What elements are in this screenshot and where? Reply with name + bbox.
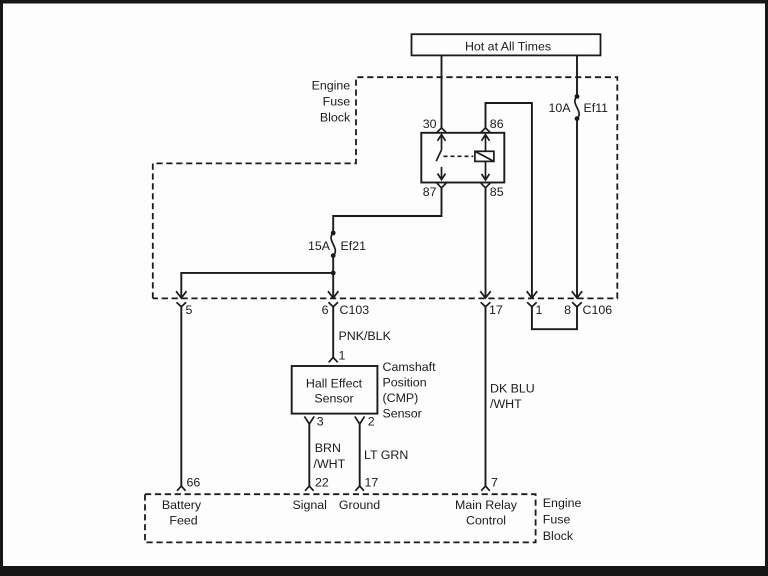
wire: row pin 17 to main relay control pin 7 (DK BLU/WHT) xyxy=(485,307,487,486)
svg-text:Sensor: Sensor xyxy=(383,407,422,421)
wire color label DK BLU/WHT xyxy=(490,382,535,412)
label: Engine Fuse Block (bottom) xyxy=(543,496,582,543)
svg-text:1: 1 xyxy=(339,349,346,363)
wire: fuse Ef21 down to row pin 6 xyxy=(328,256,338,298)
label: Camshaft Position (CMP) Sensor xyxy=(383,360,437,421)
engine fuse block boundary (dashed) xyxy=(153,77,618,298)
relay pin 30 connector caret xyxy=(437,128,446,132)
power source label: Hot at All Times xyxy=(412,34,601,55)
svg-text:Camshaft: Camshaft xyxy=(383,360,437,374)
wire: CMP pin 2 to ground pin 17 (LT GRN) xyxy=(359,424,361,486)
wire: row pin 6 to CMP pin 1 (PNK/BLK) xyxy=(332,307,334,358)
svg-text:66: 66 xyxy=(187,476,201,490)
wire: Hot at All Times to fuse Ef11 xyxy=(576,55,578,96)
svg-text:Block: Block xyxy=(543,529,574,543)
svg-text:Ef11: Ef11 xyxy=(584,101,609,115)
svg-text:Battery: Battery xyxy=(162,498,202,512)
connector pin 17 caret xyxy=(481,302,503,317)
svg-text:Ef21: Ef21 xyxy=(341,239,367,253)
svg-text:Sensor: Sensor xyxy=(314,391,353,405)
relay coil (pins 86-85) xyxy=(475,135,494,180)
engine fuse block (bottom) boundary dashed box xyxy=(145,494,536,542)
wire: fuse Ef11 to C106 pin 8 xyxy=(572,119,582,298)
wire: relay pin 86 to C106 pin 1 xyxy=(486,103,538,298)
svg-text:Position: Position xyxy=(383,376,427,390)
svg-text:Fuse: Fuse xyxy=(543,513,571,527)
svg-text:87: 87 xyxy=(423,185,437,199)
svg-text:Engine: Engine xyxy=(312,79,351,93)
wire: relay pin 85 down to fuse block row pin 17 xyxy=(480,188,490,298)
label: Battery Feed xyxy=(162,498,202,528)
relay mechanical linkage (dashed) xyxy=(444,155,474,157)
svg-text:Ground: Ground xyxy=(339,498,380,512)
svg-text:Fuse: Fuse xyxy=(323,95,351,109)
wire: C106 pins 1 and 8 jumper xyxy=(532,307,577,329)
CMP pin 3 caret xyxy=(304,414,323,428)
connector pin 8 caret (C106) xyxy=(564,302,612,317)
svg-text:C103: C103 xyxy=(340,303,370,317)
svg-text:15A: 15A xyxy=(308,239,331,253)
svg-text:8: 8 xyxy=(564,303,571,317)
CMP pin 2 caret xyxy=(355,414,375,428)
relay pin 85 connector caret xyxy=(481,183,490,188)
svg-text:Feed: Feed xyxy=(169,514,197,528)
svg-text:C106: C106 xyxy=(583,303,613,317)
svg-text:7: 7 xyxy=(491,476,498,490)
svg-text:2: 2 xyxy=(368,414,375,428)
wire: relay pin 87 to fuse Ef21 xyxy=(333,188,441,233)
connector pin 7 caret xyxy=(481,476,498,491)
svg-text:DK BLU: DK BLU xyxy=(490,382,535,396)
fuse Ef21 xyxy=(331,231,336,258)
svg-text:Hall Effect: Hall Effect xyxy=(306,376,363,390)
connector pin 6 caret xyxy=(322,302,370,317)
svg-text:30: 30 xyxy=(423,117,437,131)
connector pin 1 caret (C106) xyxy=(527,302,542,317)
svg-text:86: 86 xyxy=(490,117,504,131)
svg-text:/WHT: /WHT xyxy=(314,457,346,471)
svg-text:22: 22 xyxy=(315,476,329,490)
junction dot xyxy=(331,271,336,276)
svg-text:85: 85 xyxy=(490,185,504,199)
connector pin 17 caret (ground) xyxy=(355,476,378,491)
svg-text:1: 1 xyxy=(536,303,543,317)
label: Main Relay Control xyxy=(455,498,518,528)
CMP pin 1 caret xyxy=(329,349,346,363)
connector pin 5 caret xyxy=(177,302,193,317)
svg-text:(CMP): (CMP) xyxy=(383,391,419,405)
svg-text:17: 17 xyxy=(489,303,503,317)
svg-text:LT GRN: LT GRN xyxy=(364,448,408,462)
relay box xyxy=(421,133,504,183)
wire: branch to row pin 5 xyxy=(176,273,333,298)
svg-text:Engine: Engine xyxy=(543,496,582,510)
label: Engine Fuse Block (top) xyxy=(312,79,351,125)
wire color label BRN/WHT xyxy=(314,441,346,471)
relay pin 86 connector caret xyxy=(481,128,490,132)
svg-text:/WHT: /WHT xyxy=(490,397,522,411)
relay switch contact (pins 30-87) xyxy=(436,135,445,180)
svg-text:Control: Control xyxy=(466,514,506,528)
svg-text:5: 5 xyxy=(186,303,193,317)
svg-text:Hot at All Times: Hot at All Times xyxy=(465,40,551,54)
relay pin 87 connector caret xyxy=(437,183,446,188)
connector pin 66 caret xyxy=(177,476,200,491)
svg-text:Main Relay: Main Relay xyxy=(455,498,518,512)
svg-text:Signal: Signal xyxy=(292,498,326,512)
svg-text:3: 3 xyxy=(317,414,324,428)
svg-text:PNK/BLK: PNK/BLK xyxy=(339,329,392,343)
fuse Ef11 xyxy=(575,94,580,121)
svg-text:BRN: BRN xyxy=(315,441,341,455)
svg-text:17: 17 xyxy=(365,476,379,490)
svg-text:Block: Block xyxy=(320,111,351,125)
wire: Hot at All Times to relay pin 30 xyxy=(441,55,443,128)
svg-text:6: 6 xyxy=(322,303,329,317)
svg-text:10A: 10A xyxy=(548,101,571,115)
connector pin 22 caret xyxy=(305,476,329,491)
Hall Effect Sensor box xyxy=(292,366,378,414)
wire: CMP pin 3 to signal pin 22 (BRN/WHT) xyxy=(308,424,310,486)
wire: row pin 5 to battery feed pin 66 xyxy=(180,307,182,486)
